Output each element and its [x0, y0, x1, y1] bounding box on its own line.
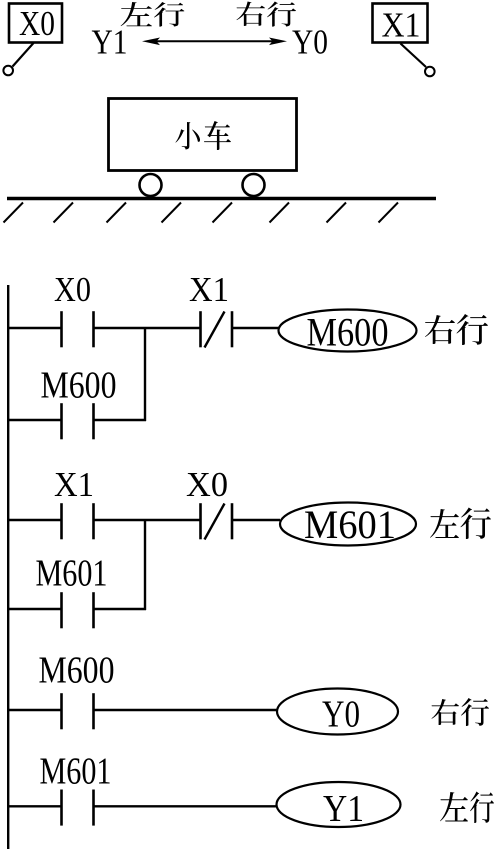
branch M600: junction vertical wire [144, 327, 146, 421]
wire rung2 middle [94, 519, 201, 521]
svg-text:M600: M600 [41, 365, 117, 407]
label zuoxing char xing [154, 2, 184, 27]
contact X1 NC (rung 1): left bar [199, 311, 202, 347]
label youxing char xing [267, 1, 296, 26]
ground hatch 5 [213, 203, 233, 223]
contact X1 NC (rung 1): right bar [231, 311, 234, 347]
svg-text:X1: X1 [382, 6, 421, 45]
rung3 comment you [431, 699, 459, 725]
svg-text:X1: X1 [189, 270, 229, 309]
ground hatch 3 [107, 203, 127, 223]
lever wire of switch X0 [13, 43, 34, 67]
wire rung3 to coil [94, 709, 279, 711]
roller circle of switch X0 [3, 66, 13, 76]
contact X1 (rung 2): left lead wire [7, 519, 62, 521]
svg-text:Y0: Y0 [292, 23, 328, 62]
svg-text:M601: M601 [40, 751, 112, 793]
roller circle of switch X1 [425, 67, 435, 77]
svg-text:Y1: Y1 [323, 788, 364, 830]
contact M601 seal-in (branch 2): left lead wire [7, 608, 62, 610]
cart label char xiao [176, 122, 201, 149]
contact M600 seal-in (branch 1): right bar [92, 403, 95, 439]
limit switch box X1 [373, 4, 428, 43]
contact X0 NC (rung 2): left bar [199, 503, 202, 539]
cart body rectangle [109, 99, 297, 171]
ground line [7, 197, 436, 200]
contact X1 (rung 2): right bar [92, 503, 95, 539]
left power rail [7, 285, 9, 849]
svg-text:X1: X1 [54, 465, 94, 504]
coil Y0 ellipse [277, 689, 398, 735]
coil M601 ellipse [280, 503, 416, 546]
contact X0 (rung 1): left lead wire [7, 327, 62, 329]
contact M600 seal-in (branch 1): left lead wire [7, 419, 62, 421]
ground hatch 4 [162, 203, 182, 223]
rung1 comment you [425, 315, 455, 344]
contact M600 (rung 3): left bar [60, 693, 63, 729]
limit switch box X0 [9, 4, 62, 43]
ground hatch 1 [4, 203, 24, 223]
wire rung1 middle [94, 327, 201, 329]
coil Y1 ellipse [277, 782, 401, 827]
contact X1 NC (rung 1): NC slash [205, 312, 225, 348]
branch M601: junction vertical wire [144, 519, 146, 610]
contact X0 NC (rung 2): right bar [231, 503, 234, 539]
contact M600 (rung 3): right bar [92, 693, 95, 729]
svg-text:Y0: Y0 [322, 694, 360, 736]
contact M601 (rung 4): right bar [92, 790, 95, 826]
contact M601 (rung 4): left lead wire [7, 805, 62, 807]
ground hatch 6 [270, 203, 290, 223]
contact M601 seal-in (branch 2): right bar [92, 592, 95, 628]
ground hatch 7 [327, 203, 347, 223]
rung1 comment xing [457, 314, 489, 345]
cart right wheel [243, 174, 265, 196]
svg-text:X0: X0 [54, 270, 91, 309]
branch2 wire right [94, 608, 147, 610]
contact X0 (rung 1): right bar [92, 311, 95, 347]
wire rung1 to coil [232, 327, 279, 329]
ground hatch 8 [379, 203, 399, 223]
contact M601 seal-in (branch 2): left bar [60, 592, 63, 628]
contact M600 (rung 3): left lead wire [7, 709, 62, 711]
label youxing (right travel) char you [237, 2, 266, 26]
rung4 comment zuo [440, 792, 468, 822]
wire rung2 to coil [232, 519, 280, 521]
contact X0 NC (rung 2): NC slash [205, 504, 225, 540]
ground hatch 2 [54, 203, 74, 223]
cart label char che [204, 121, 231, 150]
cart left wheel [140, 174, 162, 196]
branch1 wire right [94, 419, 147, 421]
svg-text:X0: X0 [19, 4, 55, 43]
contact X0 (rung 1): left bar [60, 311, 63, 347]
svg-text:M601: M601 [304, 502, 396, 547]
wire rung4 to coil [94, 805, 278, 807]
coil M600 ellipse [279, 310, 417, 352]
svg-text:M600: M600 [307, 310, 389, 355]
contact X1 (rung 2): left bar [60, 503, 63, 539]
svg-text:X0: X0 [186, 465, 228, 504]
rung4 comment xing [470, 792, 494, 823]
label zuoxing (left travel) char zuo [121, 2, 152, 26]
lever wire of switch X1 [401, 44, 427, 68]
rung3 comment xing [461, 698, 489, 726]
rung2 comment xing [460, 508, 491, 539]
contact M601 (rung 4): left bar [60, 790, 63, 826]
svg-text:M601: M601 [36, 553, 108, 595]
svg-text:Y1: Y1 [92, 23, 128, 62]
svg-text:M600: M600 [39, 650, 115, 692]
rung2 comment zuo [430, 509, 459, 538]
double-headed arrow Y1-Y0 [156, 40, 273, 42]
contact M600 seal-in (branch 1): left bar [60, 403, 63, 439]
